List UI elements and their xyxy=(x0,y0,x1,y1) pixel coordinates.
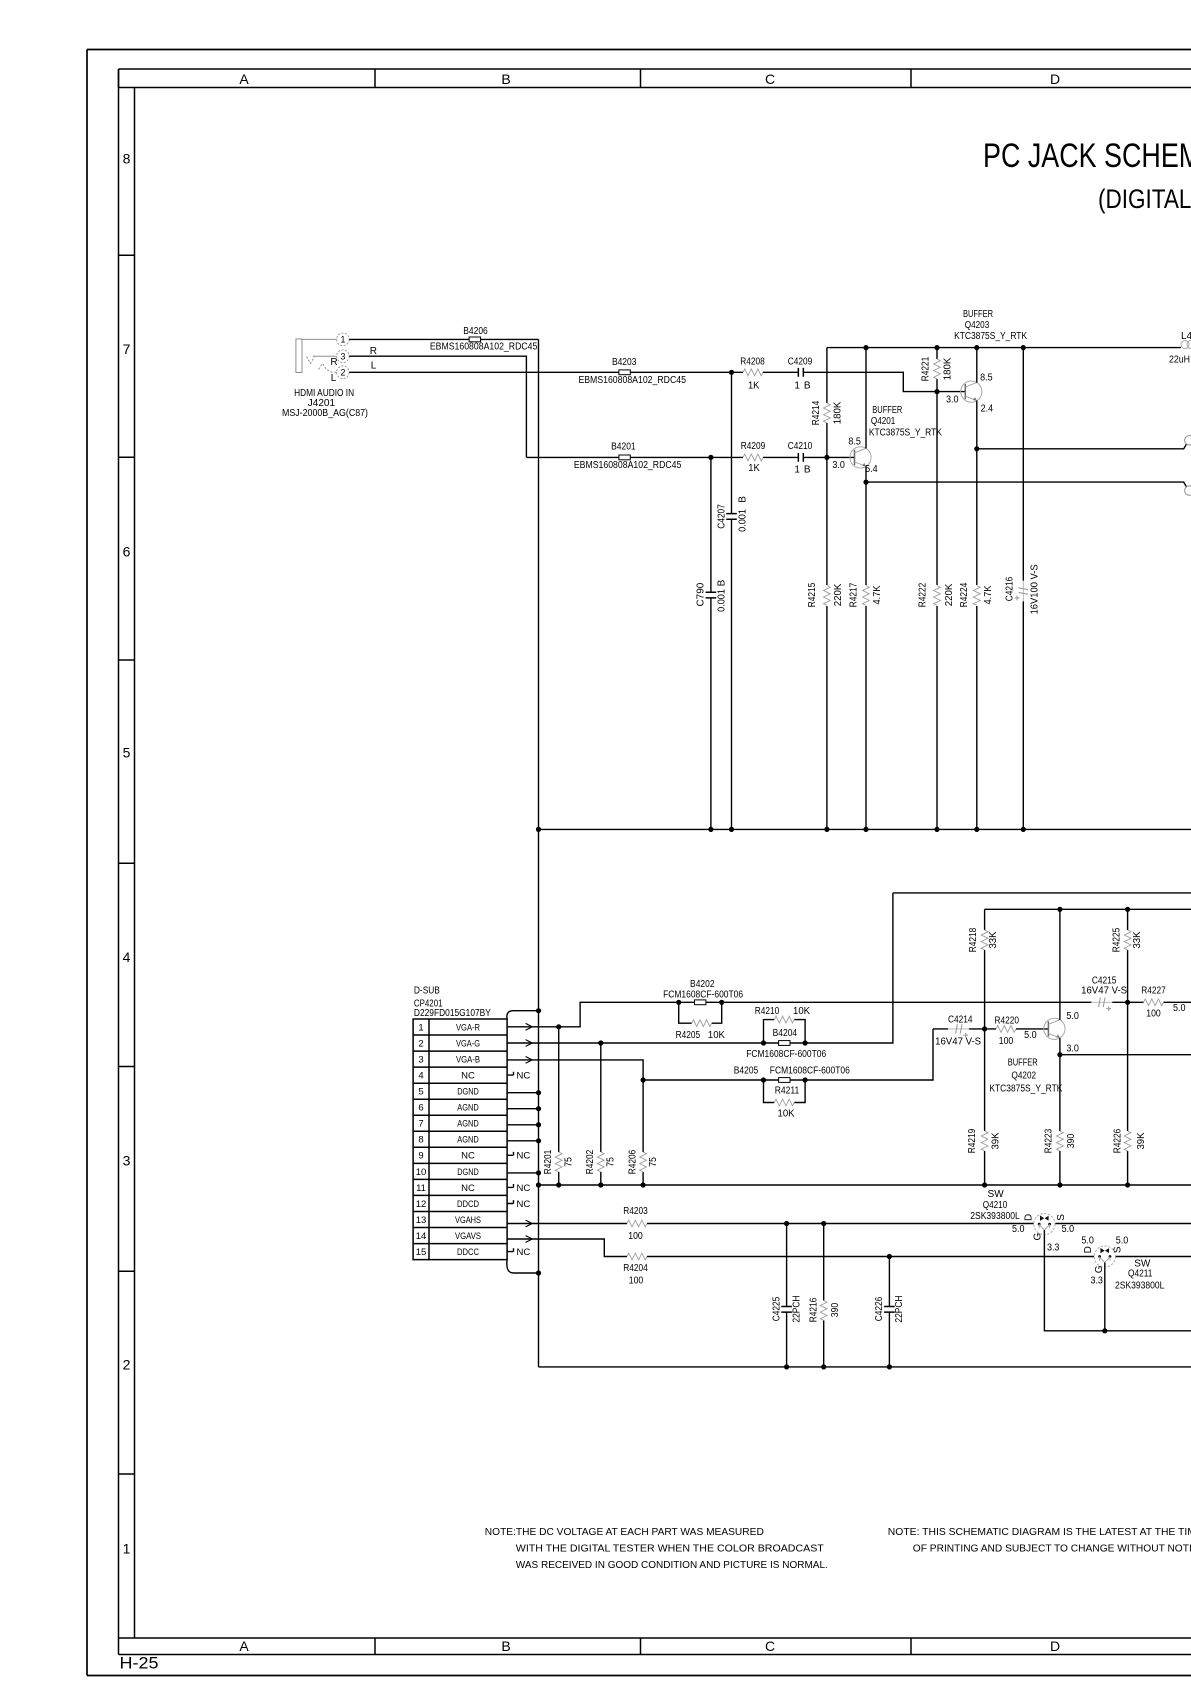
wire: pin3 VGA-B row xyxy=(507,1060,643,1080)
svg-text:FCM1608CF-600T06: FCM1608CF-600T06 xyxy=(770,1065,850,1076)
resistor R4223 390 xyxy=(1059,1055,1061,1185)
resistor R4204 100 xyxy=(627,1253,647,1260)
junction: Q4201 base node xyxy=(824,455,829,460)
svg-text:B: B xyxy=(501,71,510,87)
svg-text:1: 1 xyxy=(794,464,800,475)
svg-text:10K: 10K xyxy=(793,1006,810,1017)
svg-text:390: 390 xyxy=(830,1302,841,1317)
svg-text:9: 9 xyxy=(418,1151,423,1162)
capacitor C790 0.001B xyxy=(706,592,717,598)
resistor R4221 180K xyxy=(936,348,938,392)
svg-text:WAS RECEIVED IN GOOD CONDITION: WAS RECEIVED IN GOOD CONDITION AND PICTU… xyxy=(516,1560,828,1571)
wire: pin1 VGA-R row xyxy=(507,1002,1191,1027)
svg-text:BUFFER: BUFFER xyxy=(1008,1058,1038,1069)
svg-text:EBMS160808A102_RDC45: EBMS160808A102_RDC45 xyxy=(574,460,682,471)
svg-text:10K: 10K xyxy=(708,1030,725,1041)
resistor R4203 100 xyxy=(627,1220,647,1227)
resistor R4218 33K xyxy=(984,909,986,1029)
svg-text:R4203: R4203 xyxy=(623,1206,648,1217)
svg-text:A: A xyxy=(239,1638,249,1654)
transistor Q4201 xyxy=(850,447,871,468)
svg-text:B: B xyxy=(501,1638,510,1654)
svg-text:180K: 180K xyxy=(833,401,844,424)
svg-text:B4206: B4206 xyxy=(463,326,488,337)
junction: R4221 on rail xyxy=(934,345,939,350)
svg-text:10: 10 xyxy=(416,1167,427,1178)
svg-text:C4214: C4214 xyxy=(948,1014,973,1025)
svg-text:12: 12 xyxy=(416,1199,427,1210)
junction: R4216 tap xyxy=(821,1221,826,1226)
wire: VGA-B row to Q4202 xyxy=(643,1029,1048,1080)
svg-text:C: C xyxy=(765,1638,775,1654)
svg-text:4: 4 xyxy=(418,1071,423,1082)
wire: Q4203 emitter xyxy=(976,401,978,449)
wire: R4217 vertical xyxy=(865,482,867,829)
svg-text:SW: SW xyxy=(988,1189,1005,1200)
svg-text:16V47 V-S: 16V47 V-S xyxy=(935,1037,981,1048)
svg-text:3.0: 3.0 xyxy=(832,460,845,471)
svg-text:NC: NC xyxy=(517,1151,531,1162)
bead B4202 with parallel R4205 xyxy=(676,1000,681,1005)
column header strip (bottom) xyxy=(119,1638,1191,1655)
resistor R4217 4.7K xyxy=(863,586,870,606)
junction: Q4201 collector on rail xyxy=(863,345,868,350)
junction: R4202 tap xyxy=(598,1040,603,1045)
svg-text:R: R xyxy=(330,357,337,368)
ground bus (VGA section) xyxy=(539,1184,1191,1186)
wire: Q4201 collector xyxy=(865,348,867,449)
svg-text:R4223: R4223 xyxy=(1043,1128,1054,1153)
svg-text:AGND: AGND xyxy=(457,1103,479,1114)
svg-text:5: 5 xyxy=(123,745,131,761)
resistor R4224 4.7K xyxy=(973,586,980,606)
svg-text:2SK393800L: 2SK393800L xyxy=(1115,1281,1165,1292)
wire: long ground vertical (pin1/shield) xyxy=(538,339,540,1367)
svg-text:KTC3875S_Y_RTK: KTC3875S_Y_RTK xyxy=(954,331,1027,342)
junction: B4203 row / C4207 xyxy=(729,370,734,375)
svg-text:1K: 1K xyxy=(748,463,760,474)
svg-text:(DIGITAL CIRCUIT): (DIGITAL CIRCUIT) xyxy=(1098,185,1191,214)
resistor R4216 390 xyxy=(823,1224,825,1367)
svg-text:5: 5 xyxy=(418,1087,423,1098)
resistor R4215 220K xyxy=(824,586,831,606)
junction: B4201 row / C790 xyxy=(708,455,713,460)
svg-text:EBMS160808A102_RDC45: EBMS160808A102_RDC45 xyxy=(430,342,538,353)
svg-text:BUFFER: BUFFER xyxy=(963,309,993,320)
svg-text:VGA-B: VGA-B xyxy=(456,1055,480,1066)
svg-text:7: 7 xyxy=(123,341,131,357)
wire: R4222 vertical xyxy=(936,392,938,830)
resistor R4202 75 xyxy=(600,1043,602,1185)
svg-text:NOTE: THIS SCHEMATIC DIAGRAM I: NOTE: THIS SCHEMATIC DIAGRAM IS THE LATE… xyxy=(888,1527,1191,1538)
svg-text:1: 1 xyxy=(418,1022,423,1033)
svg-text:NC: NC xyxy=(461,1183,475,1194)
resistor R4226 39K xyxy=(1127,1002,1129,1185)
svg-text:5.0: 5.0 xyxy=(1062,1224,1075,1235)
svg-text:C4207: C4207 xyxy=(717,504,728,529)
svg-text:8: 8 xyxy=(418,1135,423,1146)
NC stubs pins 4,9,11,12,15 xyxy=(507,1072,513,1075)
wire: Q4211 gate xyxy=(1104,1267,1106,1331)
ground bus (audio section) xyxy=(539,828,1191,830)
svg-text:22uH: 22uH xyxy=(1169,354,1190,365)
svg-text:3: 3 xyxy=(418,1055,423,1066)
junction: VGA-B corner / R4206 xyxy=(641,1077,646,1082)
svg-text:5.0: 5.0 xyxy=(1081,1236,1094,1247)
wire: Q4210 gate xyxy=(1044,1235,1191,1331)
wire: C4207 vertical xyxy=(731,372,733,829)
svg-text:D229FD015G107BY: D229FD015G107BY xyxy=(414,1008,491,1019)
svg-text:100: 100 xyxy=(628,1231,643,1242)
svg-text:R4204: R4204 xyxy=(623,1263,648,1274)
svg-text:B4205: B4205 xyxy=(734,1065,759,1076)
wire: R channel row (B4201,R4209,C4210) xyxy=(526,456,854,458)
svg-text:R4222: R4222 xyxy=(917,582,928,607)
svg-text:R4201: R4201 xyxy=(543,1149,554,1174)
inductor L4 22uH xyxy=(1181,341,1189,349)
mosfet Q4210 2SK393800L xyxy=(1034,1214,1055,1235)
wire: Q4201 emitter xyxy=(865,466,867,482)
bead B4203 xyxy=(619,370,630,375)
svg-text:D: D xyxy=(1083,1246,1094,1253)
svg-text:R4211: R4211 xyxy=(775,1086,800,1097)
capacitor C4216 16V100 xyxy=(1015,581,1028,602)
junction: R4201 tap xyxy=(556,1024,561,1029)
svg-text:22PCH: 22PCH xyxy=(894,1296,905,1323)
svg-text:2.4: 2.4 xyxy=(981,403,994,414)
svg-text:0.001: 0.001 xyxy=(738,509,749,532)
svg-text:NC: NC xyxy=(461,1071,475,1082)
wire: pin2 VGA-G row xyxy=(507,893,893,1043)
svg-text:Q4201: Q4201 xyxy=(871,416,896,427)
svg-text:2: 2 xyxy=(340,367,345,377)
wire: Q4201 emitter row to edge connector xyxy=(866,482,1186,487)
svg-text:FCM1608CF-600T06: FCM1608CF-600T06 xyxy=(663,989,743,1000)
svg-text:BUFFER: BUFFER xyxy=(872,405,902,416)
svg-text:R4227: R4227 xyxy=(1141,986,1166,997)
svg-text:2SK393800L: 2SK393800L xyxy=(970,1211,1020,1222)
svg-text:R4202: R4202 xyxy=(585,1149,596,1174)
svg-text:C4209: C4209 xyxy=(788,357,813,368)
svg-text:DDCD: DDCD xyxy=(457,1199,479,1210)
junction: C4214/R4220/R4218/R4219 node xyxy=(982,1026,987,1031)
svg-text:1K: 1K xyxy=(748,381,760,392)
svg-text:D: D xyxy=(1023,1214,1034,1221)
resistor R4222 220K xyxy=(934,586,941,606)
svg-text:13: 13 xyxy=(416,1215,427,1226)
svg-text:8: 8 xyxy=(123,151,131,167)
svg-text:VGAVS: VGAVS xyxy=(455,1231,481,1242)
svg-text:8.5: 8.5 xyxy=(980,373,993,384)
svg-text:VGA-R: VGA-R xyxy=(456,1022,480,1033)
junction: Q4203 collector on rail xyxy=(974,345,979,350)
wire: Q4203 collector xyxy=(976,348,978,383)
svg-text:2: 2 xyxy=(123,1357,131,1373)
svg-text:4.7K: 4.7K xyxy=(983,585,994,604)
wire: Q4203 emitter row to edge connector xyxy=(977,444,1187,449)
capacitor C4207 0.001B xyxy=(726,514,737,520)
svg-text:PC JACK SCHEMATIC DIAGRAM: PC JACK SCHEMATIC DIAGRAM xyxy=(983,136,1191,175)
svg-text:AGND: AGND xyxy=(457,1119,479,1130)
wire: supply rail xyxy=(827,347,1181,349)
svg-text:6: 6 xyxy=(418,1103,423,1114)
svg-text:15: 15 xyxy=(416,1247,427,1258)
svg-text:S: S xyxy=(1112,1246,1123,1253)
capacitor C4209 1B xyxy=(798,368,803,377)
svg-text:5.0: 5.0 xyxy=(1116,1236,1129,1247)
svg-text:1: 1 xyxy=(340,335,345,345)
svg-text:FCM1608CF-600T06: FCM1608CF-600T06 xyxy=(746,1049,826,1060)
bead B4205 with parallel R4211 xyxy=(761,1077,766,1082)
wire: pin5 DGND xyxy=(507,1092,538,1094)
mosfet Q4211 2SK393800L xyxy=(1094,1246,1115,1267)
capacitor C4215 16V47 xyxy=(1091,998,1112,1011)
svg-text:R4224: R4224 xyxy=(959,582,970,607)
svg-text:33K: 33K xyxy=(1132,931,1143,948)
svg-text:220K: 220K xyxy=(833,583,844,606)
svg-text:R4217: R4217 xyxy=(848,582,859,607)
svg-text:L: L xyxy=(331,373,337,384)
svg-text:B4204: B4204 xyxy=(773,1028,798,1039)
resistor R4201 75 xyxy=(558,1027,560,1185)
svg-text:R4226: R4226 xyxy=(1113,1128,1124,1153)
wire: pin2 L channel row (B4203,R4208,C4209) xyxy=(349,372,965,391)
transistor Q4202 xyxy=(1044,1018,1065,1039)
svg-text:100: 100 xyxy=(1146,1009,1161,1020)
wire: pin1 to ground vertical xyxy=(349,338,538,340)
wire: pin6 AGND xyxy=(507,1108,538,1110)
svg-text:R4210: R4210 xyxy=(755,1006,780,1017)
svg-text:MSJ-2000B_AG(C87): MSJ-2000B_AG(C87) xyxy=(282,408,368,419)
off-page connector (R out) xyxy=(1185,436,1191,445)
svg-text:7: 7 xyxy=(418,1119,423,1130)
svg-text:0.001: 0.001 xyxy=(717,589,728,612)
svg-text:H-25: H-25 xyxy=(120,1654,159,1673)
wire: pin7 AGND xyxy=(507,1124,538,1126)
svg-text:L: L xyxy=(371,360,377,371)
svg-text:WITH THE DIGITAL TESTER WHEN T: WITH THE DIGITAL TESTER WHEN THE COLOR B… xyxy=(516,1544,824,1555)
junction: R4225 on rail xyxy=(1125,907,1130,912)
junction: Q4203 base node xyxy=(934,389,939,394)
junction: C4226 tap xyxy=(887,1254,892,1259)
svg-text:C4225: C4225 xyxy=(772,1296,783,1321)
svg-text:16V100 V-S: 16V100 V-S xyxy=(1029,564,1040,614)
junction: C4225 tap xyxy=(784,1221,789,1226)
svg-text:8.5: 8.5 xyxy=(848,436,861,447)
wire: R4224 vertical xyxy=(976,449,978,830)
svg-text:39K: 39K xyxy=(1136,1132,1147,1149)
wire: C4216 vertical xyxy=(1022,348,1024,830)
svg-text:Q4210: Q4210 xyxy=(983,1200,1008,1211)
wire: C790 vertical xyxy=(710,457,712,829)
svg-text:G: G xyxy=(1094,1265,1105,1273)
svg-text:B4203: B4203 xyxy=(612,357,637,368)
svg-text:B: B xyxy=(717,579,728,586)
wire: pin3 R channel to lower row xyxy=(349,356,526,457)
svg-text:B: B xyxy=(804,381,811,392)
svg-text:NC: NC xyxy=(517,1199,531,1210)
svg-text:C: C xyxy=(765,71,775,87)
svg-text:R4206: R4206 xyxy=(627,1149,638,1174)
svg-text:39K: 39K xyxy=(991,1132,1002,1149)
D-SUB shell ties xyxy=(507,1011,539,1019)
svg-text:R4216: R4216 xyxy=(808,1297,819,1322)
svg-text:5.0: 5.0 xyxy=(1024,1030,1037,1041)
svg-text:1: 1 xyxy=(123,1541,131,1557)
svg-text:390: 390 xyxy=(1066,1133,1077,1148)
svg-text:5.4: 5.4 xyxy=(865,464,878,475)
svg-text:S: S xyxy=(1056,1214,1067,1221)
svg-text:R4214: R4214 xyxy=(811,400,822,425)
resistor R4214 180K xyxy=(824,403,831,423)
svg-text:NC: NC xyxy=(461,1151,475,1162)
svg-text:NC: NC xyxy=(517,1183,531,1194)
svg-text:5.0: 5.0 xyxy=(1066,1011,1079,1022)
row number column xyxy=(119,69,135,1655)
svg-text:3.3: 3.3 xyxy=(1047,1242,1060,1253)
capacitor C4226 22PCH xyxy=(888,1257,890,1367)
svg-text:B: B xyxy=(738,496,749,503)
junction: Q4202 collector on rail xyxy=(1057,907,1062,912)
capacitor C4225 22PCH xyxy=(786,1224,788,1367)
svg-text:DDCC: DDCC xyxy=(457,1247,479,1258)
svg-text:33K: 33K xyxy=(988,931,999,948)
resistor R4225 33K xyxy=(1127,909,1129,1002)
bead B4206 xyxy=(469,337,480,342)
svg-text:VGA-G: VGA-G xyxy=(456,1038,480,1049)
wire: R4214/R4215 vertical xyxy=(826,348,828,830)
svg-text:D: D xyxy=(1050,1638,1060,1654)
svg-text:R4208: R4208 xyxy=(740,357,765,368)
svg-text:D-SUB: D-SUB xyxy=(414,985,440,996)
resistor R4208 1K xyxy=(743,369,763,376)
svg-text:6: 6 xyxy=(123,544,131,560)
bead B4204 with parallel R4210 xyxy=(761,1040,766,1045)
svg-text:3.0: 3.0 xyxy=(946,395,959,406)
svg-text:VGAHS: VGAHS xyxy=(455,1215,481,1226)
svg-text:3: 3 xyxy=(340,351,345,361)
svg-text:100: 100 xyxy=(999,1036,1014,1047)
wire: pin13 VGAHS row xyxy=(507,1223,1191,1225)
junction: C4215/R4227/R4225/R4226 node xyxy=(1125,1000,1130,1005)
resistor R4206 75 xyxy=(642,1080,644,1185)
svg-text:G: G xyxy=(1033,1232,1044,1240)
svg-text:D: D xyxy=(1050,71,1060,87)
svg-text:R4205: R4205 xyxy=(676,1030,701,1041)
svg-text:L4: L4 xyxy=(1181,331,1191,342)
svg-text:2: 2 xyxy=(418,1038,423,1049)
transistor Q4203 xyxy=(961,381,982,402)
capacitor C4214 16V47 xyxy=(948,1024,969,1037)
svg-text:A: A xyxy=(239,71,249,87)
svg-text:5.0: 5.0 xyxy=(1012,1224,1025,1235)
wire: analog supply rail (R4218/R4225) xyxy=(985,908,1191,910)
jack pin 3 xyxy=(337,350,350,363)
svg-text:NC: NC xyxy=(517,1071,531,1082)
svg-text:3: 3 xyxy=(123,1153,131,1169)
svg-text:220K: 220K xyxy=(944,583,955,606)
junction: emitter/R4217 xyxy=(863,480,868,485)
svg-text:R4218: R4218 xyxy=(968,927,979,952)
svg-text:B: B xyxy=(804,464,811,475)
wire: pin8 AGND xyxy=(507,1140,538,1142)
junction: gate bus xyxy=(1102,1328,1107,1333)
wire: pin10 DGND xyxy=(507,1172,538,1174)
svg-text:R4221: R4221 xyxy=(921,356,932,381)
svg-text:C4216: C4216 xyxy=(1005,576,1016,601)
svg-text:R4209: R4209 xyxy=(741,441,766,452)
resistor R4227 100 xyxy=(1144,999,1164,1006)
jack pin 1 xyxy=(337,333,350,346)
off-page connector (L out) xyxy=(1185,486,1191,495)
connector CP4201 D-SUB table xyxy=(413,1019,507,1260)
svg-text:180K: 180K xyxy=(943,357,954,380)
svg-text:R4215: R4215 xyxy=(807,582,818,607)
svg-text:75: 75 xyxy=(564,1157,575,1167)
junction: emitter/R4224 xyxy=(974,446,979,451)
wire: VGA-G output rail xyxy=(893,892,1191,894)
svg-text:R4219: R4219 xyxy=(967,1128,978,1153)
svg-text:OF PRINTING AND SUBJECT TO CHA: OF PRINTING AND SUBJECT TO CHANGE WITHOU… xyxy=(913,1544,1191,1555)
svg-text:KTC3875S_Y_RTK: KTC3875S_Y_RTK xyxy=(869,428,942,439)
wire: pin14 VGAVS row xyxy=(507,1239,1191,1257)
svg-text:Q4202: Q4202 xyxy=(1012,1070,1037,1081)
resistor R4209 1K xyxy=(743,454,763,461)
svg-text:10K: 10K xyxy=(778,1108,795,1119)
svg-text:1: 1 xyxy=(794,381,800,392)
svg-text:KTC3875S_Y_RTK: KTC3875S_Y_RTK xyxy=(989,1084,1062,1095)
svg-text:75: 75 xyxy=(648,1157,659,1167)
svg-text:R4220: R4220 xyxy=(994,1016,1019,1027)
junction: C4216 on rail xyxy=(1021,345,1026,350)
wire: Q4202 emitter row xyxy=(1060,1054,1191,1056)
svg-text:11: 11 xyxy=(416,1183,426,1194)
svg-text:R4225: R4225 xyxy=(1112,927,1123,952)
svg-text:EBMS160808A102_RDC45: EBMS160808A102_RDC45 xyxy=(578,375,686,386)
jack pin 2 xyxy=(337,366,350,379)
svg-text:100: 100 xyxy=(629,1275,644,1286)
svg-text:NOTE:THE DC VOLTAGE AT EACH PA: NOTE:THE DC VOLTAGE AT EACH PART WAS MEA… xyxy=(485,1527,764,1538)
svg-text:14: 14 xyxy=(416,1231,427,1242)
svg-text:3.0: 3.0 xyxy=(1066,1044,1079,1055)
svg-text:75: 75 xyxy=(606,1157,617,1167)
svg-text:5.0: 5.0 xyxy=(1173,1003,1186,1014)
svg-text:NC: NC xyxy=(517,1247,531,1258)
svg-text:B4201: B4201 xyxy=(611,441,636,452)
svg-text:Q4203: Q4203 xyxy=(965,320,990,331)
jack J4201 body xyxy=(296,339,337,373)
bead B4201 xyxy=(619,455,630,460)
resistor R4220 100 xyxy=(996,1026,1016,1033)
svg-text:4.7K: 4.7K xyxy=(872,585,883,604)
resistor R4219 39K xyxy=(984,1029,986,1185)
svg-text:AGND: AGND xyxy=(457,1135,479,1146)
svg-text:3.3: 3.3 xyxy=(1090,1276,1103,1287)
svg-text:DGND: DGND xyxy=(457,1167,479,1178)
svg-text:22PCH: 22PCH xyxy=(791,1296,802,1323)
svg-text:C4226: C4226 xyxy=(874,1296,885,1321)
svg-text:DGND: DGND xyxy=(457,1087,479,1098)
svg-text:C4210: C4210 xyxy=(788,441,813,452)
svg-text:C790: C790 xyxy=(695,582,706,606)
svg-text:Q4211: Q4211 xyxy=(1128,1269,1153,1280)
capacitor C4210 1B xyxy=(798,453,803,462)
svg-text:16V47 V-S: 16V47 V-S xyxy=(1081,986,1127,997)
column header strip (top) xyxy=(119,69,1191,88)
svg-text:4: 4 xyxy=(123,949,131,965)
ground bus (bottom) xyxy=(539,1366,1191,1368)
